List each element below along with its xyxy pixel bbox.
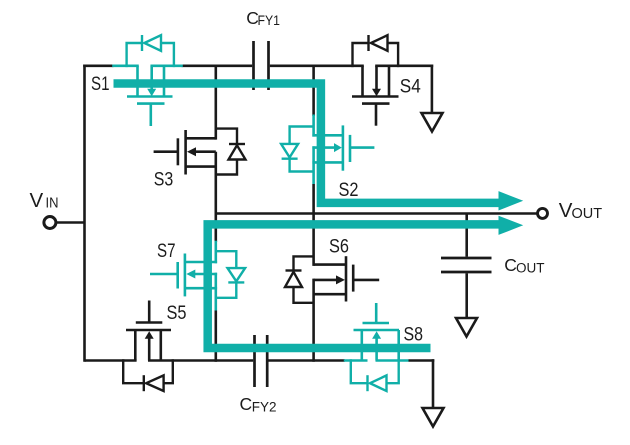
wire COUT bottom lead <box>465 273 468 318</box>
wire bottom rail S8 to ground corner <box>409 359 435 362</box>
diode D1 (S1 body diode loop) <box>127 35 174 67</box>
ground (top right, S4) <box>422 113 443 132</box>
svg-text:S8: S8 <box>404 324 424 346</box>
svg-text:S2: S2 <box>339 179 359 201</box>
svg-text:FY1: FY1 <box>258 13 281 28</box>
wire highlighted path arrow lower <box>499 216 524 235</box>
wire VOUT mid rail <box>216 212 537 215</box>
svg-text:S4: S4 <box>400 76 421 98</box>
label CFY2 <box>240 394 277 415</box>
wire top rail left segment <box>83 65 113 68</box>
capacitor COUT <box>441 258 492 272</box>
wire bottom rail CFY2 to S8 <box>269 359 346 362</box>
terminal VOUT <box>538 208 548 218</box>
diode D8 (S8 body diode loop) <box>351 359 399 391</box>
label CFY1 <box>246 8 280 28</box>
svg-text:OUT: OUT <box>516 261 545 276</box>
node A column x216 upper (S3 drain) <box>215 66 218 140</box>
diode D7 (S7 body diode) <box>216 251 245 298</box>
transistor S3 (black NMOS, gate left) <box>154 130 216 175</box>
wire bottom rail S5 to CFY2 <box>148 359 253 362</box>
wire S4 ground drop <box>431 65 434 114</box>
svg-text:OUT: OUT <box>572 206 603 222</box>
wire column x216 below S7 to bottom rail <box>215 311 218 362</box>
wire left rail (VIN rail) <box>83 65 86 362</box>
wire highlighted path bottom (S8 rail up through S7 column to VOUT) <box>208 224 499 348</box>
diode D2 (S2 body diode) <box>281 127 314 172</box>
wire column x314 S2 source to S6 drain <box>312 184 315 266</box>
wire top rail CFY1 to S4 <box>270 65 364 68</box>
svg-text:S7: S7 <box>157 240 176 262</box>
wire highlighted path top (VIN through S1 to S2 column to VOUT) <box>114 84 499 203</box>
transistor S8 (teal NMOS, vertical, gate top) <box>344 303 409 361</box>
svg-text:S3: S3 <box>154 169 174 191</box>
capacitor CFY1 <box>254 41 269 90</box>
diode D4 (S4 body diode loop) <box>353 35 399 67</box>
transistor S2 (teal NMOS, gate right) <box>312 115 374 185</box>
wire highlighted path arrow upper <box>499 191 524 210</box>
capacitor CFY2 <box>255 335 268 387</box>
wire bottom rail left segment <box>85 359 137 362</box>
transistor S7 (teal NMOS, gate left) <box>150 241 217 311</box>
wire S8 ground drop <box>432 359 435 408</box>
label COUT <box>504 255 544 275</box>
wire top rail S1 to CFY1 <box>182 65 253 68</box>
wire VIN stub <box>56 221 85 224</box>
svg-text:C: C <box>240 394 253 414</box>
label VOUT <box>559 199 602 222</box>
node column x216 lower (S3 source to S7) <box>215 152 218 242</box>
transistor S1 (teal NMOS, vertical, gate bottom) <box>112 66 183 126</box>
diode D5 (S5 body diode loop) <box>123 359 173 391</box>
ground (COUT) <box>456 318 477 337</box>
svg-text:V: V <box>30 189 44 212</box>
diode D3 (S3 body diode) <box>216 129 246 175</box>
transistor S4 (black NMOS, vertical, gate bottom) <box>352 66 399 126</box>
wire COUT top lead <box>465 214 468 257</box>
label VIN <box>30 189 59 212</box>
svg-text:IN: IN <box>46 196 59 212</box>
wire top rail S4 to ground corner <box>375 65 433 68</box>
diode D6 (S6 body diode) <box>285 256 314 302</box>
wire column x314 below S6 to bottom rail <box>312 279 315 362</box>
node B column x314 upper (S2 drain) <box>312 66 315 116</box>
terminal VIN <box>44 217 56 229</box>
transistor S5 (black NMOS, vertical, gate top) <box>126 301 171 361</box>
svg-text:S6: S6 <box>329 235 349 257</box>
svg-text:S5: S5 <box>167 302 187 324</box>
ground (bottom right, S8) <box>423 408 444 427</box>
svg-text:S1: S1 <box>91 73 110 95</box>
transistor S6 (black NMOS, gate right) <box>314 256 380 301</box>
svg-text:FY2: FY2 <box>252 400 277 415</box>
